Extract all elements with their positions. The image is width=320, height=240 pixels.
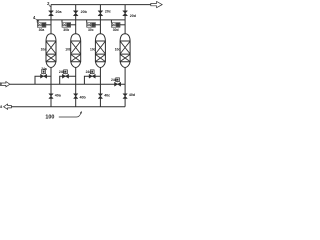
wire leader for label 2 (49, 5, 51, 6)
svg-text:24a: 24a (41, 67, 47, 71)
svg-text:24b: 24b (59, 70, 65, 74)
wire leader arrow for label 4 (36, 19, 39, 21)
adsorber vessel 10b (71, 34, 81, 68)
svg-text:30b: 30b (63, 28, 69, 32)
valve 24d (115, 82, 121, 86)
valve 40c (98, 94, 102, 99)
product outlet arrow (151, 2, 162, 8)
wire waste line (11, 106, 125, 108)
valve 40a (49, 94, 53, 99)
wire bed4 top riser (124, 5, 126, 34)
svg-text:8: 8 (0, 105, 2, 109)
valve 30c (87, 23, 96, 28)
svg-text:30a: 30a (39, 28, 45, 32)
svg-text:100: 100 (45, 114, 54, 120)
adsorber vessel 10d (120, 34, 130, 68)
svg-text:24d: 24d (111, 78, 117, 82)
svg-text:10a: 10a (41, 48, 47, 52)
svg-text:24c: 24c (86, 70, 92, 74)
svg-text:40b: 40b (80, 95, 87, 99)
feed inlet arrow (1, 82, 10, 87)
svg-text:20d: 20d (130, 14, 136, 18)
wire bed4 equalization branch (110, 20, 112, 23)
node label 2 (47, 1, 50, 6)
node label 100 (45, 114, 54, 120)
adsorber vessel 10a (46, 34, 56, 68)
valve 20c (98, 11, 103, 16)
adsorber vessel 10c (95, 34, 105, 68)
valve 24a (41, 74, 47, 78)
svg-text:40a: 40a (55, 94, 62, 98)
svg-text:20a: 20a (56, 10, 63, 14)
svg-text:10d: 10d (115, 48, 121, 52)
wire leader for label 100 (59, 112, 81, 117)
wire bed3 equalization branch (86, 20, 88, 23)
svg-text:10b: 10b (65, 48, 71, 52)
valve 24c (89, 74, 95, 78)
valve 20d (123, 11, 128, 16)
wire bed1 top riser (50, 5, 52, 34)
wire bed3 top riser (99, 5, 101, 34)
wire equalization manifold line 4 (37, 19, 125, 21)
wire bed3 feed branch (84, 76, 100, 84)
node label 4 (33, 15, 36, 20)
svg-text:20c: 20c (105, 10, 111, 14)
wire bed3 bottom leg (99, 67, 101, 106)
wire bed2 feed branch (60, 76, 76, 84)
svg-text:2: 2 (47, 1, 50, 6)
valve 20b (73, 11, 78, 16)
valve 24b (62, 74, 68, 78)
wire bed1 bottom leg (50, 67, 52, 106)
node label 8 (0, 105, 2, 109)
svg-text:20b: 20b (81, 10, 88, 14)
valve 30a (37, 23, 46, 28)
waste outlet arrow (4, 104, 12, 109)
wire bed2 top riser (75, 5, 77, 34)
wire bed1 equalization branch (36, 20, 38, 23)
wire bed2 bottom leg (75, 67, 77, 106)
svg-text:30c: 30c (88, 28, 94, 32)
valve 20a (49, 11, 54, 16)
valve 30d (111, 23, 120, 28)
svg-text:10c: 10c (90, 48, 96, 52)
wire feed line (10, 83, 125, 85)
valve 40b (74, 94, 78, 99)
wire product manifold line 2 (51, 4, 151, 6)
svg-text:30d: 30d (113, 28, 119, 32)
valve 30b (62, 23, 71, 28)
svg-text:40c: 40c (104, 94, 110, 98)
wire bed4 bottom leg (124, 67, 126, 106)
wire bed1 feed branch (35, 76, 51, 84)
valve 40d (123, 94, 127, 99)
svg-text:4: 4 (33, 15, 36, 20)
svg-text:40d: 40d (129, 93, 135, 97)
wire bed2 equalization branch (61, 20, 63, 23)
